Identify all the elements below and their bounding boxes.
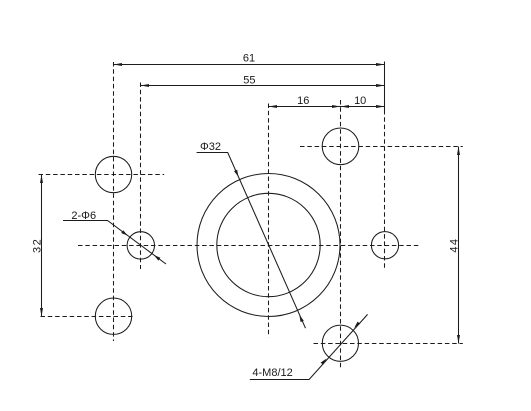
arrowhead 61 left	[114, 63, 123, 66]
arrowhead 2-Phi6 upper (points into hole)	[121, 230, 128, 236]
arrowhead Phi32 upper (points into bore)	[234, 170, 238, 177]
dimension line 44	[458, 147, 460, 344]
hole M8 top-left	[95, 156, 131, 192]
arrowhead 44 top	[457, 147, 460, 156]
hole M8 bottom-left	[95, 298, 131, 334]
svg-text:10: 10	[354, 95, 366, 107]
center line horizontal through top-right M8 hole	[300, 146, 463, 148]
svg-text:55: 55	[243, 75, 255, 87]
hole M8 top-right	[322, 128, 359, 165]
hole Phi6 right	[371, 232, 398, 259]
leader line 4-M8/12	[250, 314, 368, 379]
center line vertical through big bore	[268, 104, 270, 338]
dimension line 55	[141, 85, 385, 87]
dimension line 16 and 10	[269, 106, 385, 108]
center line vertical through left Phi6 hole	[140, 83, 142, 270]
arrowhead 44 bottom	[457, 335, 460, 344]
bore inner circle	[217, 193, 320, 296]
svg-text:Φ32: Φ32	[200, 141, 221, 153]
main horizontal center line	[78, 245, 420, 247]
arrowhead 55 left	[141, 84, 150, 87]
arrowhead 55 right	[376, 84, 385, 87]
extension line right (solid over dims)	[384, 62, 386, 111]
hole M8 bottom-right	[322, 325, 358, 361]
bore outer circle Phi32	[197, 174, 340, 317]
leader line 2-Phi6	[63, 221, 166, 265]
arrowhead 61 right	[376, 63, 385, 66]
center line horizontal through bottom-left M8 hole	[41, 316, 133, 318]
dimension line 61	[114, 64, 385, 66]
svg-text:16: 16	[297, 95, 309, 107]
center line vertical through right Phi6 hole	[384, 110, 386, 271]
leader line Phi32	[197, 153, 306, 329]
center line vertical through left M8 holes	[113, 62, 115, 341]
arrowhead 4-M8/12 lower (points into hole)	[321, 359, 327, 365]
arrowhead 32 bottom	[40, 308, 43, 317]
arrowhead 10 right	[376, 105, 385, 108]
center line vertical through right M8 holes	[340, 100, 342, 370]
arrowhead 4-M8/12 upper (points back at hole)	[354, 322, 360, 328]
arrowhead 16 left	[269, 105, 278, 108]
dimension line 32	[41, 175, 43, 317]
arrowhead 16 right	[332, 105, 341, 108]
arrowhead 10 left	[341, 105, 350, 108]
arrowhead 32 top	[40, 175, 43, 184]
arrowhead Phi32 lower (points back at bore)	[299, 315, 303, 322]
hole Phi6 left	[127, 232, 154, 259]
svg-text:44: 44	[448, 238, 460, 253]
svg-text:2-Φ6: 2-Φ6	[71, 210, 96, 222]
arrowhead 2-Phi6 lower (points back at hole)	[154, 255, 161, 261]
svg-text:4-M8/12: 4-M8/12	[252, 367, 292, 379]
center line horizontal through top-left M8 hole	[39, 174, 165, 176]
svg-text:32: 32	[32, 238, 44, 253]
center line horizontal through bottom-right M8 hole	[314, 343, 463, 345]
svg-text:61: 61	[243, 53, 255, 65]
